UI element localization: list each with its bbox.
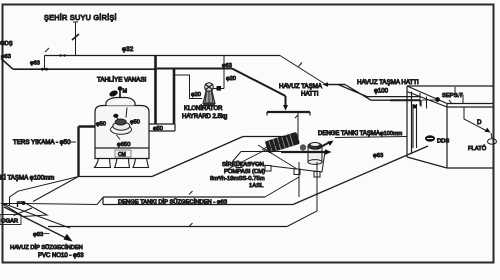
- tick on waste line: [189, 223, 193, 227]
- vertical pipe P1 from city line to filter banner: [154, 56, 157, 124]
- banner pipe phi50 (filter outlet): [149, 124, 175, 131]
- wire: heavy diagonal to pool: [232, 69, 286, 97]
- wire: pump to banner vertical V1: [298, 162, 300, 197]
- circulation pump motor: [262, 132, 300, 154]
- svg-text:HATTI: HATTI: [301, 91, 319, 98]
- svg-text:φ50: φ50: [130, 120, 140, 126]
- svg-text:DENGE TANKI DİP SÜZGECİNDEN -: DENGE TANKI DİP SÜZGECİNDEN - φ63: [118, 199, 227, 206]
- svg-text:φ63: φ63: [33, 232, 43, 238]
- chlorinator feed elbow: [174, 75, 202, 99]
- svg-text:φ63: φ63: [1, 54, 11, 60]
- svg-text:φ20: φ20: [226, 76, 236, 82]
- pump strainer pot: [300, 143, 322, 165]
- svg-text:1ASL: 1ASL: [249, 183, 264, 189]
- vertical pipe P2 from phi63 line to filter banner: [173, 69, 176, 124]
- weir step on tank rim: [455, 87, 463, 103]
- waste line to manhole y=226.5: [48, 226, 287, 228]
- tank internal suction pipe: [413, 104, 417, 148]
- svg-text:φ63: φ63: [222, 63, 232, 69]
- wire: banner feed from manhole: [26, 198, 103, 205]
- svg-text:TERS YIKAMA - φ50: TERS YIKAMA - φ50: [13, 139, 71, 146]
- wire: pool suction vertical: [297, 113, 299, 142]
- svg-text:φ32: φ32: [122, 46, 134, 53]
- filter legs: [95, 158, 149, 168]
- svg-text:φ20: φ20: [191, 92, 201, 98]
- svg-text:HAVUZ DİP SÜZGECİNDEN: HAVUZ DİP SÜZGECİNDEN: [10, 244, 83, 251]
- main suction diagonal to tank sump: [293, 146, 428, 205]
- diagonal up to pump suction line: [152, 137, 243, 177]
- fitting tick on city line: [45, 48, 49, 52]
- overflow line to manhole: [10, 177, 79, 207]
- multiport valve on filter: [111, 108, 132, 135]
- pool water surface line: [267, 112, 310, 116]
- wire: horizontal into pump suction: [243, 136, 290, 138]
- arrowhead into pool: [283, 105, 288, 111]
- label SİRKÜLASYON POMPASI: [210, 161, 265, 189]
- wire: left step down to phi63 line: [44, 56, 46, 70]
- manhole LOGAR: [2, 201, 47, 217]
- valve on city inlet: [72, 34, 79, 40]
- wire: diagonal to left border (GİDİŞ): [1, 59, 13, 70]
- valve square on chlorinator outlet: [213, 88, 224, 90]
- svg-text:KLONİRATOR: KLONİRATOR: [184, 105, 223, 112]
- chlorinator branch vertical: [223, 56, 225, 89]
- union dots on phi63 line: [41, 68, 44, 71]
- svg-text:OGAR: OGAR: [1, 219, 18, 225]
- svg-text:GDŞ: GDŞ: [0, 41, 13, 47]
- svg-text:HAVUZ TAŞMA: HAVUZ TAŞMA: [279, 83, 323, 90]
- svg-text:φ100: φ100: [374, 89, 389, 95]
- svg-text:CM: CM: [118, 152, 126, 158]
- wire: pump waste vertical V2: [287, 162, 317, 227]
- pump discharge arrow stub: [317, 143, 329, 150]
- svg-text:TAHLİYE VANASI: TAHLİYE VANASI: [97, 77, 147, 84]
- svg-text:DDS: DDS: [437, 139, 449, 145]
- arrow leader at overflow junction: [326, 84, 345, 86]
- wire: phi63 heavy line to pool: [157, 68, 232, 70]
- overflow double diagonal to tank: [338, 85, 435, 107]
- svg-text:φ50: φ50: [96, 122, 106, 128]
- svg-text:φ650: φ650: [117, 142, 130, 148]
- backwash run under filter: [79, 176, 153, 178]
- pipes crossing under pump: [226, 141, 283, 170]
- svg-text:8m³/h-19mSS-0.75m: 8m³/h-19mSS-0.75m: [210, 176, 265, 182]
- svg-text:M: M: [123, 89, 128, 95]
- label CM box: [115, 150, 131, 158]
- svg-text:Kİ TAŞMA φ100mm: Kİ TAŞMA φ100mm: [0, 175, 54, 182]
- banner top diagonal to pump: [265, 177, 299, 197]
- wire: pump discharge to tank: [335, 137, 407, 138]
- svg-text:SEPS.T: SEPS.T: [442, 93, 463, 99]
- svg-text:D: D: [477, 119, 482, 126]
- float symbol: [488, 139, 497, 145]
- tick on banner line: [189, 191, 193, 195]
- chlorinator device: [203, 83, 215, 107]
- banner pipe DENGE TANKI DİP SÜZGECİNDEN: [103, 197, 293, 205]
- svg-text:φ50: φ50: [153, 126, 163, 132]
- pump suction manifold with arrow: [281, 151, 326, 153]
- balance tank outline: [407, 86, 493, 168]
- filter tank body: [95, 98, 149, 159]
- svg-text:PVC NO10 - φ63: PVC NO10 - φ63: [38, 253, 84, 259]
- pump base plate: [233, 152, 326, 178]
- union dots on phi32 line: [59, 54, 61, 56]
- svg-text:HAYRARD 2.5kg: HAYRARD 2.5kg: [182, 114, 227, 120]
- backwash vertical pipe: [77, 127, 79, 177]
- label LOGAR box: [0, 215, 21, 225]
- tank inlet notch: [420, 93, 427, 109]
- svg-text:ŞEHİR SUYU GİRİŞİ: ŞEHİR SUYU GİRİŞİ: [44, 13, 117, 22]
- drain valve on filter dome: [108, 86, 127, 98]
- svg-text:SİRKÜLASYON: SİRKÜLASYON: [222, 161, 264, 168]
- wire: phi32 city water horizontal main: [45, 55, 281, 57]
- svg-text:φ63: φ63: [30, 61, 40, 67]
- wire: phi63 left horizontal: [13, 68, 157, 70]
- wire: city water vertical drop: [75, 22, 77, 56]
- drain diagonal filter to manhole: [33, 177, 79, 202]
- dot and label SEB.T: [435, 97, 440, 102]
- svg-text:HAVUZ TAŞMA HATTI: HAVUZ TAŞMA HATTI: [357, 79, 419, 86]
- svg-text:φ63: φ63: [373, 153, 383, 159]
- svg-text:FLATÖ: FLATÖ: [468, 145, 487, 152]
- float fill line: [464, 107, 487, 131]
- wire: vertical into pool with arrow: [285, 96, 287, 106]
- svg-text:POMPASI (CM): POMPASI (CM): [224, 169, 265, 175]
- svg-text:DENGE TANKI TAŞMAφ100mm: DENGE TANKI TAŞMAφ100mm: [318, 131, 403, 137]
- waste diagonals from manhole: [2, 203, 70, 228]
- tick under pool surface: [295, 115, 298, 118]
- tank bottom sump DDS: [425, 135, 435, 141]
- leader dash: [70, 141, 76, 143]
- wire: filter left port to backwash pipe: [79, 125, 96, 127]
- wire: city water thin diagonal to tank: [280, 56, 325, 85]
